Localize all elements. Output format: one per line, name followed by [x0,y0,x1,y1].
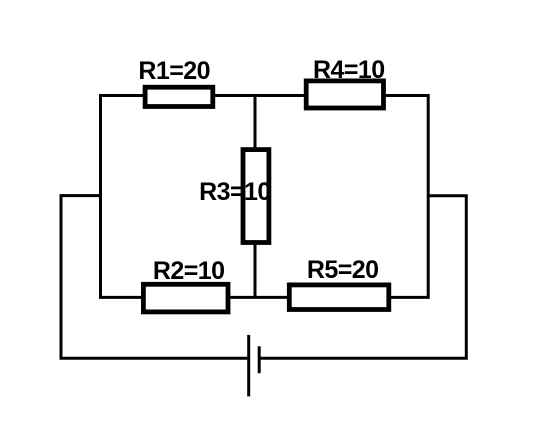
battery B1 long plate [247,335,250,397]
resistor R3 [243,150,269,243]
wire top-middle: between R1 right terminal and R4 left terminal [214,94,305,97]
svg-text:R1=20: R1=20 [138,57,210,85]
wire top-left: from R1 left terminal to top-left corner down inner-left rail to bottom wire into R2 [101,96,145,298]
svg-text:R3=10: R3=10 [199,178,271,206]
resistor R4 [306,81,383,108]
battery B1 short plate [258,346,261,373]
resistor R1 [145,87,213,106]
resistor R5 [289,285,389,310]
wire left battery branch: tap from inner-left rail, outer-left rail, bottom wire to battery long plate [61,196,247,359]
svg-text:R2=10: R2=10 [153,257,225,285]
svg-text:R5=20: R5=20 [307,256,379,284]
resistor R2 [143,284,228,312]
wire right battery branch: tap from inner-right rail, outer-right rail, bottom wire to battery short plate [261,196,467,358]
wire R3 top lead: from top wire down to R3 [254,96,257,151]
wire R3 bottom lead: from R3 down to bottom wire [254,243,257,297]
svg-text:R4=10: R4=10 [313,56,385,84]
wire top-right: from R4 right terminal to top-right corner down inner-right rail to R5 right terminal [385,96,428,298]
wire bottom-middle: between R2 right terminal and R5 left terminal [229,296,288,299]
